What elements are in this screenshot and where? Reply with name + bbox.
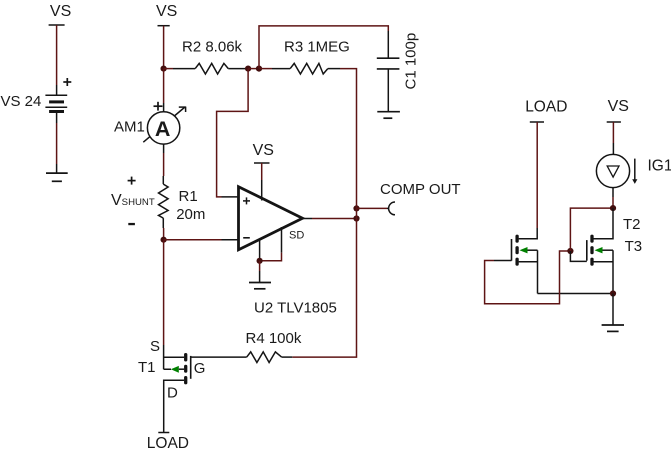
transistor T2 channel bars	[515, 236, 518, 264]
battery plus sign	[63, 78, 71, 86]
svg-text:AM1: AM1	[114, 119, 145, 136]
svg-text:VS 24: VS 24	[1, 93, 42, 110]
wire battery to ground	[56, 123, 58, 164]
junction node B	[161, 237, 167, 243]
terminal LOAD bar (right)	[530, 121, 544, 123]
wire battery top	[56, 25, 58, 85]
svg-text:T2: T2	[623, 216, 641, 233]
ammeter AM1 circle	[147, 112, 179, 144]
transistor T3 gate line	[586, 240, 588, 261]
transistor T2 body arrow (green)	[520, 247, 528, 253]
current source IG1 side arrow head	[632, 179, 637, 184]
svg-text:S: S	[150, 338, 160, 355]
ammeter AM1 plus sign	[154, 102, 163, 111]
transistor T2 drain lead	[519, 228, 538, 239]
junction node F (gate node)	[567, 248, 573, 254]
svg-text:VS: VS	[608, 98, 629, 115]
svg-text:R1: R1	[179, 188, 198, 205]
ground (right)	[602, 325, 624, 331]
junction node C dot2	[256, 66, 262, 72]
resistor R2 right lead	[228, 68, 248, 70]
wire node G to ground	[612, 294, 614, 326]
junction node G (source/gnd)	[610, 290, 616, 296]
transistor T1 gate line	[190, 356, 192, 379]
resistor R4 zigzag	[247, 352, 282, 363]
junction node D (op-amp gnd)	[257, 258, 263, 264]
wire op-amp supply	[261, 163, 263, 180]
wire node A to AM1	[163, 69, 165, 103]
junction node E dot (output)	[353, 215, 359, 221]
wire AM1 to R1	[163, 153, 165, 176]
wire SD to ground node	[260, 253, 282, 261]
svg-text:R3 1MEG: R3 1MEG	[284, 39, 350, 56]
transistor T3 source lead	[594, 250, 614, 293]
current source IG1 inner triangle	[607, 166, 619, 177]
op-amp plus input lead	[222, 196, 239, 198]
wire node C up and over to C1	[259, 26, 388, 69]
transistor T2 body lead	[528, 249, 538, 251]
op-amp output lead	[303, 218, 313, 220]
COMP OUT terminal arc	[389, 202, 395, 215]
svg-text:VS: VS	[156, 3, 177, 20]
terminal VS bar (op-amp supply)	[254, 162, 270, 164]
wire node E down to R4	[292, 205, 356, 357]
current source IG1 side arrow	[634, 159, 636, 180]
label VSHUNT plus	[128, 177, 136, 185]
wire node E to COMP OUT terminal	[357, 207, 388, 209]
transistor T3 body lead	[603, 249, 614, 251]
transistor T3 channel bars	[590, 236, 593, 264]
svg-text:T3: T3	[625, 238, 643, 255]
transistor T1 drain lead	[164, 380, 184, 432]
resistor R2 zigzag	[195, 63, 228, 74]
current source IG1 top lead	[612, 143, 614, 155]
ammeter AM1 arrow head	[179, 107, 186, 112]
wire node B to op-amp minus input	[164, 239, 222, 241]
transistor T1 source wire from node B	[163, 240, 165, 345]
svg-text:LOAD: LOAD	[525, 99, 567, 116]
wire VS terminal to node A	[163, 26, 165, 69]
wire op-amp output to node E	[312, 218, 357, 220]
transistor T3 gate lead	[570, 251, 586, 261]
svg-text:R2 8.06k: R2 8.06k	[182, 39, 243, 56]
wire VS to IG1	[612, 122, 614, 143]
wire IG1 to node H	[612, 197, 614, 208]
junction node A	[161, 66, 167, 72]
capacitor C1 top lead	[387, 31, 389, 58]
wire R3 to output column	[340, 69, 357, 205]
op-amp V- pin	[259, 239, 261, 260]
capacitor C1 plates	[377, 58, 400, 69]
terminal VS bar (right)	[607, 121, 621, 123]
wire T2 gate loop	[485, 251, 571, 304]
resistor R3 right lead	[328, 68, 340, 70]
battery VS 24 plates	[45, 95, 67, 111]
svg-text:IG1: IG1	[648, 157, 671, 174]
resistor R3 left lead	[272, 68, 290, 70]
ground (battery branch)	[46, 164, 68, 181]
transistor T1 source lead	[164, 345, 184, 369]
resistor R2 left lead	[173, 68, 195, 70]
svg-text:D: D	[167, 385, 178, 402]
svg-text:U2 TLV1805: U2 TLV1805	[254, 300, 337, 317]
capacitor C1 bottom lead	[387, 69, 389, 112]
wire LOAD to T2 drain	[536, 122, 538, 228]
transistor T1 body bar link	[179, 368, 184, 370]
svg-text:G: G	[194, 360, 206, 377]
svg-text:VS: VS	[253, 142, 274, 159]
ammeter AM1 bottom lead	[163, 144, 165, 153]
COMP OUT terminal lead	[387, 207, 388, 209]
svg-text:COMP OUT: COMP OUT	[380, 181, 461, 198]
svg-text:LOAD: LOAD	[147, 435, 189, 452]
wire node F up to IG1 node	[570, 208, 613, 251]
transistor T3 body arrow (green)	[595, 247, 603, 253]
wire node C down-jog to op-amp plus input	[217, 69, 249, 197]
ground (op-amp)	[249, 271, 271, 289]
resistor R4 right lead	[282, 356, 293, 358]
junction node H	[610, 205, 616, 211]
op-amp SD pin	[281, 227, 283, 253]
svg-text:SD: SD	[289, 230, 304, 242]
wire R1 to node B	[163, 228, 165, 240]
transistor T2 source lead	[519, 250, 538, 293]
wire node C to R3	[259, 68, 272, 70]
transistor T1 body arrow (green)	[171, 366, 179, 373]
svg-text:20m: 20m	[176, 206, 205, 223]
op-amp U2 triangle	[239, 187, 303, 250]
current source IG1 circle	[596, 154, 629, 187]
op-amp supply pin stub	[261, 180, 263, 201]
current source IG1 bottom lead	[612, 188, 614, 197]
svg-text:R4 100k: R4 100k	[246, 330, 302, 347]
wire node D to ground	[259, 261, 261, 271]
op-amp plus sign	[243, 197, 250, 204]
wire T2 source to node G	[538, 293, 614, 295]
transistor T1 channel bars	[184, 355, 187, 383]
battery VS24 top lead	[56, 85, 58, 95]
wire dot1 to dot2	[248, 68, 259, 70]
wire R4 to T1 gate	[191, 356, 247, 358]
resistor R3 zigzag	[290, 63, 328, 74]
op-amp minus input lead	[222, 239, 239, 241]
ammeter AM1 arrow diagonal	[143, 107, 185, 142]
label VSHUNT minus	[128, 223, 135, 225]
terminal VS bar (battery top)	[49, 24, 65, 26]
terminal LOAD bar (bottom)	[158, 432, 169, 434]
ammeter AM1 top lead	[163, 103, 165, 111]
svg-text:T1: T1	[138, 359, 156, 376]
transistor T2 gate lead	[494, 260, 512, 262]
junction node E dot (COMP OUT tap)	[353, 205, 359, 211]
transistor T2 gate line	[511, 239, 513, 261]
svg-text:VS: VS	[50, 3, 71, 20]
svg-text:C1 100p: C1 100p	[403, 33, 420, 90]
resistor R1 bottom lead	[162, 218, 164, 228]
resistor R1 top lead	[162, 176, 164, 184]
svg-text:A: A	[155, 117, 171, 141]
wire node A to R2	[164, 68, 173, 70]
terminal VS bar (main branch)	[158, 25, 170, 27]
junction node C dot1	[245, 66, 251, 72]
ground (C1)	[377, 112, 400, 119]
transistor T3 drain lead	[594, 208, 614, 239]
battery bottom lead	[56, 113, 58, 124]
op-amp minus sign	[243, 237, 250, 239]
resistor R1 zigzag	[159, 184, 169, 218]
